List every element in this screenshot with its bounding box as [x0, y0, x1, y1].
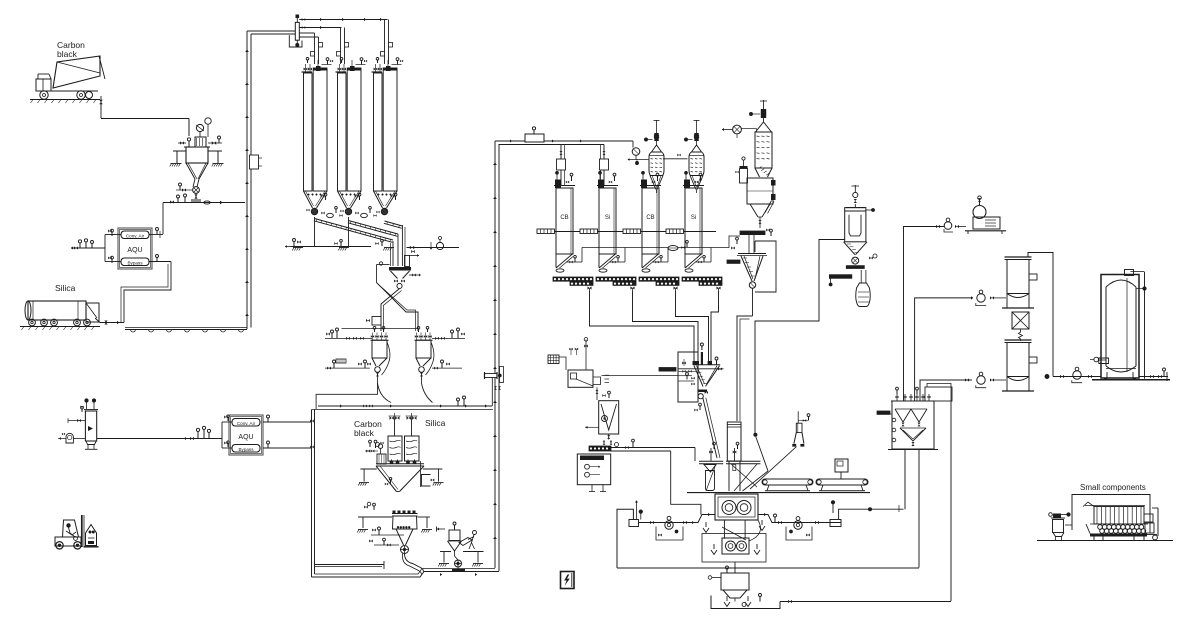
svg-text:Conv. Air: Conv. Air	[126, 234, 145, 239]
svg-text:black: black	[354, 428, 375, 438]
svg-text:Bypass: Bypass	[127, 261, 143, 266]
svg-text:Conv. Air: Conv. Air	[237, 421, 256, 426]
svg-text:AQU: AQU	[127, 247, 142, 254]
svg-text:Bypass: Bypass	[238, 447, 254, 452]
svg-text:CB: CB	[560, 215, 568, 221]
svg-text:Small components: Small components	[1080, 483, 1146, 492]
svg-text:Si: Si	[691, 215, 696, 221]
svg-text:Silica: Silica	[425, 418, 446, 428]
svg-text:Silica: Silica	[55, 283, 76, 293]
svg-text:AQU: AQU	[238, 434, 253, 441]
svg-text:CB: CB	[646, 215, 654, 221]
svg-text:black: black	[57, 49, 78, 59]
svg-text:Si: Si	[605, 215, 610, 221]
